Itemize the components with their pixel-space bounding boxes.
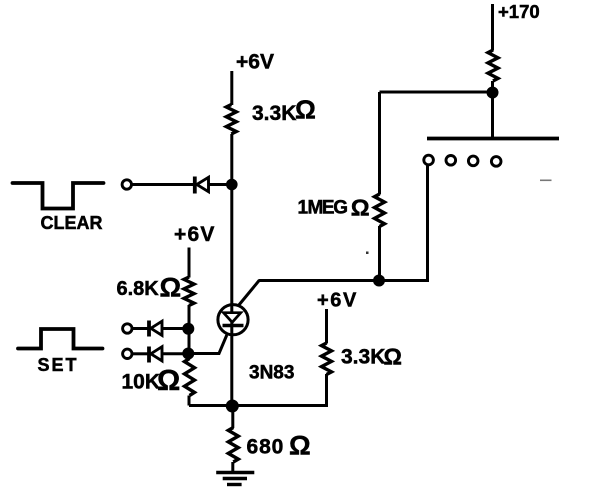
svg-text:680: 680 bbox=[247, 436, 285, 459]
resistor R1 3.3K (anode load, upper) bbox=[226, 105, 236, 135]
wire anode gate diagonal bbox=[239, 280, 260, 306]
wire cathode 1 down to node C level bbox=[380, 165, 428, 280]
wire SCS cathode to node D bbox=[230, 322, 233, 406]
wire cathode bus horizontal bbox=[189, 404, 328, 407]
resistor R3 1 MEG bbox=[375, 194, 385, 227]
wire 1MEG bottom to node C bbox=[378, 226, 381, 281]
tube cathode pin 4 bbox=[491, 157, 501, 167]
svg-text:+170: +170 bbox=[498, 1, 540, 22]
junction node E bbox=[182, 323, 194, 335]
resistor R2 (tube anode load) bbox=[488, 50, 498, 81]
ground bbox=[216, 473, 254, 485]
svg-text:Ω: Ω bbox=[289, 431, 311, 461]
svg-text:+6V: +6V bbox=[174, 223, 216, 246]
wire node D to R7 top bbox=[231, 406, 234, 428]
resistor R6 3.3K (cathode bias) bbox=[322, 343, 332, 375]
svg-text:Ω: Ω bbox=[157, 365, 180, 397]
diode CR1 (CLEAR steering diode) bbox=[195, 177, 209, 194]
svg-text:3.3K: 3.3K bbox=[341, 346, 385, 369]
svg-text:Ω: Ω bbox=[160, 273, 182, 303]
wire +6V to R4 bbox=[188, 248, 191, 278]
tube cathode pin 1 bbox=[424, 155, 434, 165]
resistor R7 680 bbox=[228, 428, 238, 463]
wire SET terminal 2 to diode CR3 bbox=[132, 352, 148, 355]
wire node C to anode gate corner bbox=[259, 279, 380, 282]
transistor Q1 3N83 (silicon controlled switch) circle bbox=[218, 305, 248, 335]
wire node E to node F bbox=[188, 329, 191, 354]
wire node B to tube anode bbox=[491, 93, 494, 138]
resistor R4 6.8K bbox=[184, 277, 194, 306]
svg-text:6.8K: 6.8K bbox=[117, 278, 160, 300]
wire +6V to R1 top bbox=[230, 71, 233, 105]
wire node B branch down to 1MEG bbox=[378, 92, 381, 195]
svg-text:+6V: +6V bbox=[317, 290, 358, 312]
junction node D (cathode node) bbox=[226, 400, 239, 413]
wire diode CR1 to node A bbox=[209, 183, 231, 186]
waveform SET positive pulse bbox=[18, 329, 103, 349]
wire node F to SCS cathode gate bbox=[189, 335, 227, 354]
svg-text:SET: SET bbox=[38, 355, 79, 375]
junction node F (cathode gate node) bbox=[182, 348, 194, 360]
svg-text:+6V: +6V bbox=[236, 51, 274, 74]
svg-text:10K: 10K bbox=[122, 371, 161, 394]
wire node B to 1MEG top bbox=[380, 91, 495, 94]
tube cathode pin 2 bbox=[446, 156, 456, 166]
transistor Q1 cathode bar bbox=[223, 324, 244, 327]
wire SET terminal 1 to diode CR2 bbox=[132, 327, 148, 330]
junction node C (anode gate node) bbox=[373, 275, 385, 287]
wire node F to R5 top bbox=[188, 354, 191, 360]
wire R6 bottom to cathode bus bbox=[325, 374, 328, 407]
terminal SET input 1 bbox=[123, 324, 132, 333]
wire R5 bottom to cathode bus bbox=[188, 396, 191, 406]
wire +170 supply lead bbox=[491, 4, 494, 51]
wire R2 bottom to node B bbox=[491, 81, 494, 93]
wire CLEAR terminal to diode CR1 bbox=[132, 183, 195, 186]
diode CR3 (SET steering diode 2) bbox=[149, 347, 162, 363]
svg-text:MEG: MEG bbox=[308, 198, 348, 219]
waveform CLEAR negative pulse bbox=[13, 183, 104, 209]
resistor R5 10K bbox=[185, 359, 195, 396]
wire +6V right to R6 bbox=[325, 309, 328, 344]
terminal CLEAR input bbox=[122, 180, 131, 189]
tube cathode pin 3 bbox=[468, 156, 478, 166]
svg-text:CLEAR: CLEAR bbox=[41, 213, 103, 233]
svg-text:3N83: 3N83 bbox=[249, 363, 294, 384]
tube anode plate bbox=[427, 137, 559, 141]
svg-text:Ω: Ω bbox=[384, 344, 402, 370]
wire R7 bottom to ground bbox=[231, 462, 234, 472]
transistor Q1 triangle (anode arrow) bbox=[224, 313, 241, 323]
terminal SET input 2 bbox=[123, 349, 132, 358]
junction node A (anode node) bbox=[226, 179, 238, 191]
wire diode CR3 to node F bbox=[162, 352, 187, 355]
svg-text:Ω: Ω bbox=[295, 95, 316, 125]
wire R4 bottom to node E bbox=[188, 305, 191, 329]
diode CR2 (SET steering diode 1) bbox=[149, 321, 162, 337]
wire node A to SCS anode bbox=[230, 185, 233, 314]
junction node B (anode supply node) bbox=[487, 87, 499, 99]
wire R1 bottom to node A bbox=[230, 134, 233, 185]
wire diode CR2 to node E bbox=[162, 327, 187, 330]
svg-text:Ω: Ω bbox=[351, 195, 370, 221]
svg-text:3.3K: 3.3K bbox=[252, 102, 296, 125]
